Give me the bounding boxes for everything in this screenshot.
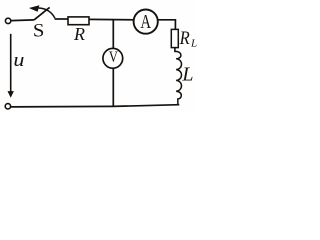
switch S arrowhead	[29, 5, 40, 12]
terminal T1 (top left)	[5, 18, 10, 23]
u arrowhead	[8, 91, 14, 98]
bottom wire	[11, 105, 180, 107]
switch S blade	[34, 7, 50, 20]
svg-text:V: V	[109, 49, 118, 67]
wire	[158, 19, 174, 21]
wire	[174, 19, 176, 29]
wire	[89, 18, 134, 20]
svg-text:S: S	[33, 20, 45, 41]
voltmeter V	[103, 48, 123, 68]
svg-text:R: R	[73, 24, 85, 44]
svg-text:u: u	[13, 50, 24, 70]
switch S arrow arc	[39, 8, 55, 18]
svg-text:A: A	[140, 10, 151, 33]
inductor L coil	[175, 51, 182, 105]
svg-text:L: L	[190, 38, 197, 50]
wire	[11, 19, 34, 22]
node junction top	[112, 19, 114, 48]
terminal T2 (bottom left)	[5, 104, 10, 109]
resistor RL	[171, 29, 178, 47]
svg-text:R: R	[179, 27, 190, 48]
wire	[55, 18, 68, 20]
svg-text:L: L	[181, 63, 193, 85]
u arrow shaft	[10, 34, 12, 93]
wire	[112, 69, 114, 108]
resistor R	[68, 17, 89, 25]
wire	[174, 48, 176, 53]
ammeter A	[134, 10, 158, 34]
